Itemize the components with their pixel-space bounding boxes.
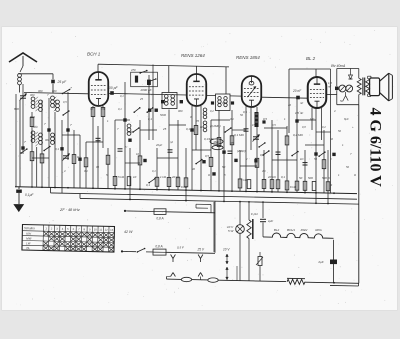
svg-text:600: 600 <box>30 115 35 119</box>
svg-text:000: 000 <box>178 109 183 113</box>
svg-text:10: 10 <box>136 152 139 156</box>
svg-text:0,1: 0,1 <box>84 169 88 173</box>
svg-text:0,5: 0,5 <box>260 153 264 157</box>
svg-text:50: 50 <box>314 157 317 161</box>
svg-text:800: 800 <box>14 107 19 111</box>
svg-text:1 kΩ: 1 kΩ <box>160 175 167 179</box>
svg-text:76: 76 <box>196 119 199 123</box>
svg-text:0,2: 0,2 <box>210 109 214 113</box>
svg-text:2: 2 <box>245 157 248 161</box>
svg-text:6 kΩ: 6 kΩ <box>181 185 188 189</box>
svg-text:4: 4 <box>64 169 66 173</box>
svg-text:4: 4 <box>62 227 64 231</box>
svg-text:100 pF: 100 pF <box>107 86 118 90</box>
svg-text:000: 000 <box>38 89 43 93</box>
svg-text:Schalter: Schalter <box>24 226 36 230</box>
svg-text:1: 1 <box>45 226 47 230</box>
svg-text:6 kΩ: 6 kΩ <box>290 185 297 189</box>
svg-text:25 V: 25 V <box>197 248 205 252</box>
svg-text:3: 3 <box>56 227 58 231</box>
svg-text:20: 20 <box>287 103 291 107</box>
svg-text:0,8: 0,8 <box>302 125 306 129</box>
svg-text:5 W: 5 W <box>228 229 235 233</box>
svg-text:KW: KW <box>26 232 31 236</box>
svg-text:1: 1 <box>338 173 340 177</box>
svg-text:7: 7 <box>44 122 46 126</box>
svg-text:2000 pF: 2000 pF <box>140 88 152 92</box>
svg-text:1: 1 <box>286 157 288 161</box>
svg-text:50: 50 <box>222 165 226 169</box>
svg-text:MΩ: MΩ <box>310 117 314 121</box>
svg-text:5000: 5000 <box>160 113 166 117</box>
svg-text:70: 70 <box>90 107 94 111</box>
svg-text:0,5: 0,5 <box>230 141 234 145</box>
svg-text:1μF: 1μF <box>268 219 273 223</box>
svg-text:7: 7 <box>117 127 119 131</box>
svg-text:+: + <box>352 126 354 129</box>
svg-text:000: 000 <box>222 101 227 105</box>
svg-text:0,2: 0,2 <box>322 125 326 129</box>
svg-text:42 W: 42 W <box>124 230 133 234</box>
svg-text:20μF: 20μF <box>155 143 162 147</box>
svg-text:BL 2: BL 2 <box>306 56 316 61</box>
svg-text:500: 500 <box>308 176 313 180</box>
svg-text:50: 50 <box>330 137 333 141</box>
svg-text:RENS 1264: RENS 1264 <box>181 53 205 58</box>
svg-text:RFG: RFG <box>315 228 322 232</box>
svg-text:7: 7 <box>24 140 26 144</box>
svg-text:(2MΩ): (2MΩ) <box>237 149 245 153</box>
svg-text:0,1: 0,1 <box>120 94 124 98</box>
svg-text:0,8 A: 0,8 A <box>156 217 163 221</box>
svg-text:0,1: 0,1 <box>230 117 234 121</box>
svg-text:25 μF: 25 μF <box>57 80 68 84</box>
svg-text:2MΩ: 2MΩ <box>214 140 220 144</box>
svg-text:0,1μF: 0,1μF <box>25 193 34 197</box>
svg-text:BL2: BL2 <box>274 228 280 232</box>
svg-text:000: 000 <box>45 138 50 142</box>
svg-text:0,1: 0,1 <box>146 183 150 187</box>
svg-text:5: 5 <box>67 227 69 231</box>
svg-text:nF: nF <box>328 85 332 89</box>
svg-text:RENS 1854: RENS 1854 <box>236 55 260 60</box>
svg-text:0,5: 0,5 <box>205 154 209 158</box>
svg-text:50: 50 <box>338 129 341 133</box>
svg-text:F pkt: F pkt <box>251 212 258 216</box>
svg-text:12: 12 <box>105 228 109 232</box>
svg-text:6: 6 <box>73 227 75 231</box>
svg-text:8: 8 <box>224 173 226 177</box>
svg-text:0: 0 <box>330 157 332 161</box>
svg-text:470: 470 <box>131 68 136 72</box>
svg-text:1: 1 <box>284 117 286 121</box>
svg-text:Ω: Ω <box>354 173 356 177</box>
svg-text:50: 50 <box>299 176 303 180</box>
svg-text:0,2 MΩ: 0,2 MΩ <box>293 133 304 137</box>
svg-text:40: 40 <box>192 167 195 171</box>
svg-text:1,5 nF: 1,5 nF <box>295 111 303 115</box>
svg-text:50: 50 <box>346 165 349 169</box>
svg-text:500 Ω: 500 Ω <box>322 176 331 180</box>
svg-text:ZF · 48 kHz: ZF · 48 kHz <box>59 208 80 212</box>
svg-text:kΩ: kΩ <box>200 125 203 129</box>
svg-text:MW: MW <box>26 236 31 240</box>
svg-text:RGN: RGN <box>301 228 309 232</box>
svg-text:10: 10 <box>133 175 137 179</box>
svg-text:5 kΩ: 5 kΩ <box>118 175 125 179</box>
svg-text:7: 7 <box>70 87 72 91</box>
svg-text:8μF: 8μF <box>344 117 349 121</box>
svg-text:20 kΩ: 20 kΩ <box>267 175 276 179</box>
svg-text:2μF: 2μF <box>317 260 323 264</box>
svg-text:TA: TA <box>26 246 30 250</box>
svg-text:50: 50 <box>340 99 344 103</box>
svg-text:000: 000 <box>128 130 133 134</box>
svg-text:0,5: 0,5 <box>243 110 247 114</box>
svg-text:η2: η2 <box>170 140 173 144</box>
svg-text:20 kΩ: 20 kΩ <box>171 175 180 179</box>
svg-text:1: 1 <box>107 119 109 123</box>
svg-text:BCH 1: BCH 1 <box>87 52 101 57</box>
svg-text:7: 7 <box>78 227 80 231</box>
svg-text:25: 25 <box>139 97 143 101</box>
svg-text:0,1: 0,1 <box>118 107 122 111</box>
svg-text:7: 7 <box>70 123 72 127</box>
svg-text:0,1: 0,1 <box>281 175 285 179</box>
svg-text:LW: LW <box>26 241 31 245</box>
svg-text:7: 7 <box>350 152 352 156</box>
svg-text:13: 13 <box>110 228 114 232</box>
svg-text:0,1: 0,1 <box>186 127 190 131</box>
svg-text:10: 10 <box>94 227 98 231</box>
svg-text:BCH1: BCH1 <box>287 228 295 232</box>
svg-text:0,1: 0,1 <box>55 147 59 151</box>
svg-text:Ω: Ω <box>208 173 210 177</box>
svg-text:0,5: 0,5 <box>272 123 276 127</box>
svg-text:1: 1 <box>342 143 344 147</box>
svg-text:7: 7 <box>47 93 49 97</box>
svg-text:nF: nF <box>300 101 303 105</box>
svg-text:2: 2 <box>51 227 53 231</box>
svg-text:kΩ: kΩ <box>300 157 303 161</box>
svg-text:0,1 MΩ: 0,1 MΩ <box>234 133 245 137</box>
svg-text:0,5: 0,5 <box>263 117 267 121</box>
svg-text:0,8 A: 0,8 A <box>155 245 162 249</box>
svg-text:4 G 6/110 V: 4 G 6/110 V <box>367 108 384 188</box>
svg-text:0,1: 0,1 <box>152 169 156 173</box>
svg-text:25: 25 <box>162 127 167 131</box>
svg-text:1 kΩ: 1 kΩ <box>241 178 248 182</box>
svg-text:50: 50 <box>240 113 243 117</box>
svg-text:000: 000 <box>52 89 57 93</box>
svg-text:11: 11 <box>99 228 102 232</box>
svg-text:0,1: 0,1 <box>77 155 81 159</box>
svg-text:Ω: Ω <box>330 183 333 187</box>
svg-text:00: 00 <box>96 165 99 169</box>
svg-text:8: 8 <box>84 227 86 231</box>
svg-text:0,1: 0,1 <box>148 117 152 121</box>
svg-text:0,1/MΩ: 0,1/MΩ <box>204 137 214 141</box>
svg-text:4Ω: 4Ω <box>262 169 266 173</box>
svg-text:9: 9 <box>89 227 91 231</box>
svg-text:8fv 40mA: 8fv 40mA <box>331 64 346 68</box>
svg-text:4: 4 <box>334 109 336 113</box>
svg-text:000: 000 <box>30 93 35 97</box>
svg-text:0,5: 0,5 <box>63 100 67 104</box>
svg-text:000: 000 <box>33 125 38 129</box>
svg-text:(0,2MΩ): (0,2MΩ) <box>210 124 221 128</box>
svg-text:0,5 F: 0,5 F <box>177 246 184 250</box>
svg-text:5: 5 <box>125 145 127 149</box>
svg-text:10 V: 10 V <box>223 248 230 252</box>
svg-text:20 nF: 20 nF <box>292 89 302 93</box>
svg-text:15: 15 <box>252 123 255 127</box>
